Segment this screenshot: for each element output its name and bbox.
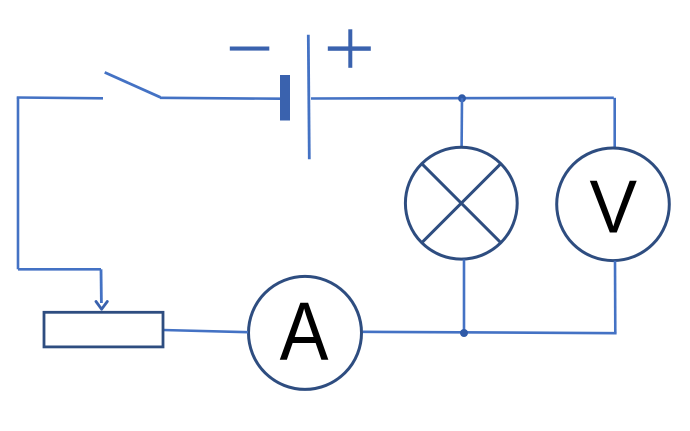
wiper arrowhead	[96, 302, 107, 310]
wire: top-left horizontal to switch left contact	[17, 96, 103, 99]
wire: left vertical from top-left corner down	[17, 98, 20, 270]
wire: switch to battery negative plate	[160, 97, 280, 100]
switch S1 (open blade)	[105, 72, 161, 97]
ammeter M1 (circle)	[249, 276, 362, 389]
node: junction dot top (lamp branch)	[458, 94, 466, 102]
wire: rheostat to ammeter	[163, 330, 248, 332]
voltmeter U1 (circle)	[557, 148, 670, 261]
label: minus sign	[230, 47, 269, 51]
node: junction dot bottom (lamp branch)	[460, 329, 468, 337]
wire: lamp bottom down to bottom junction	[463, 260, 466, 334]
wire: wiper arrow shaft down to rheostat	[100, 269, 103, 303]
battery B1 positive plate (long thin bar)	[308, 35, 309, 159]
battery B1 negative plate (short thick bar)	[280, 75, 290, 121]
wire: battery positive to top-right corner	[311, 97, 614, 100]
lamp L1 (circle with X)	[405, 147, 517, 259]
label: plus sign	[328, 29, 371, 68]
svg-text:A: A	[280, 284, 330, 377]
wire: right vertical down to voltmeter top	[613, 98, 616, 149]
wire: junction down to lamp top	[460, 98, 463, 147]
wire: bottom-left horizontal	[18, 268, 101, 271]
wire: voltmeter bottom down to bottom-right corner	[614, 261, 617, 333]
rheostat R1 (box)	[44, 312, 163, 347]
svg-text:V: V	[590, 165, 638, 249]
wire: bottom horizontal from ammeter to bottom-right corner	[363, 332, 617, 333]
